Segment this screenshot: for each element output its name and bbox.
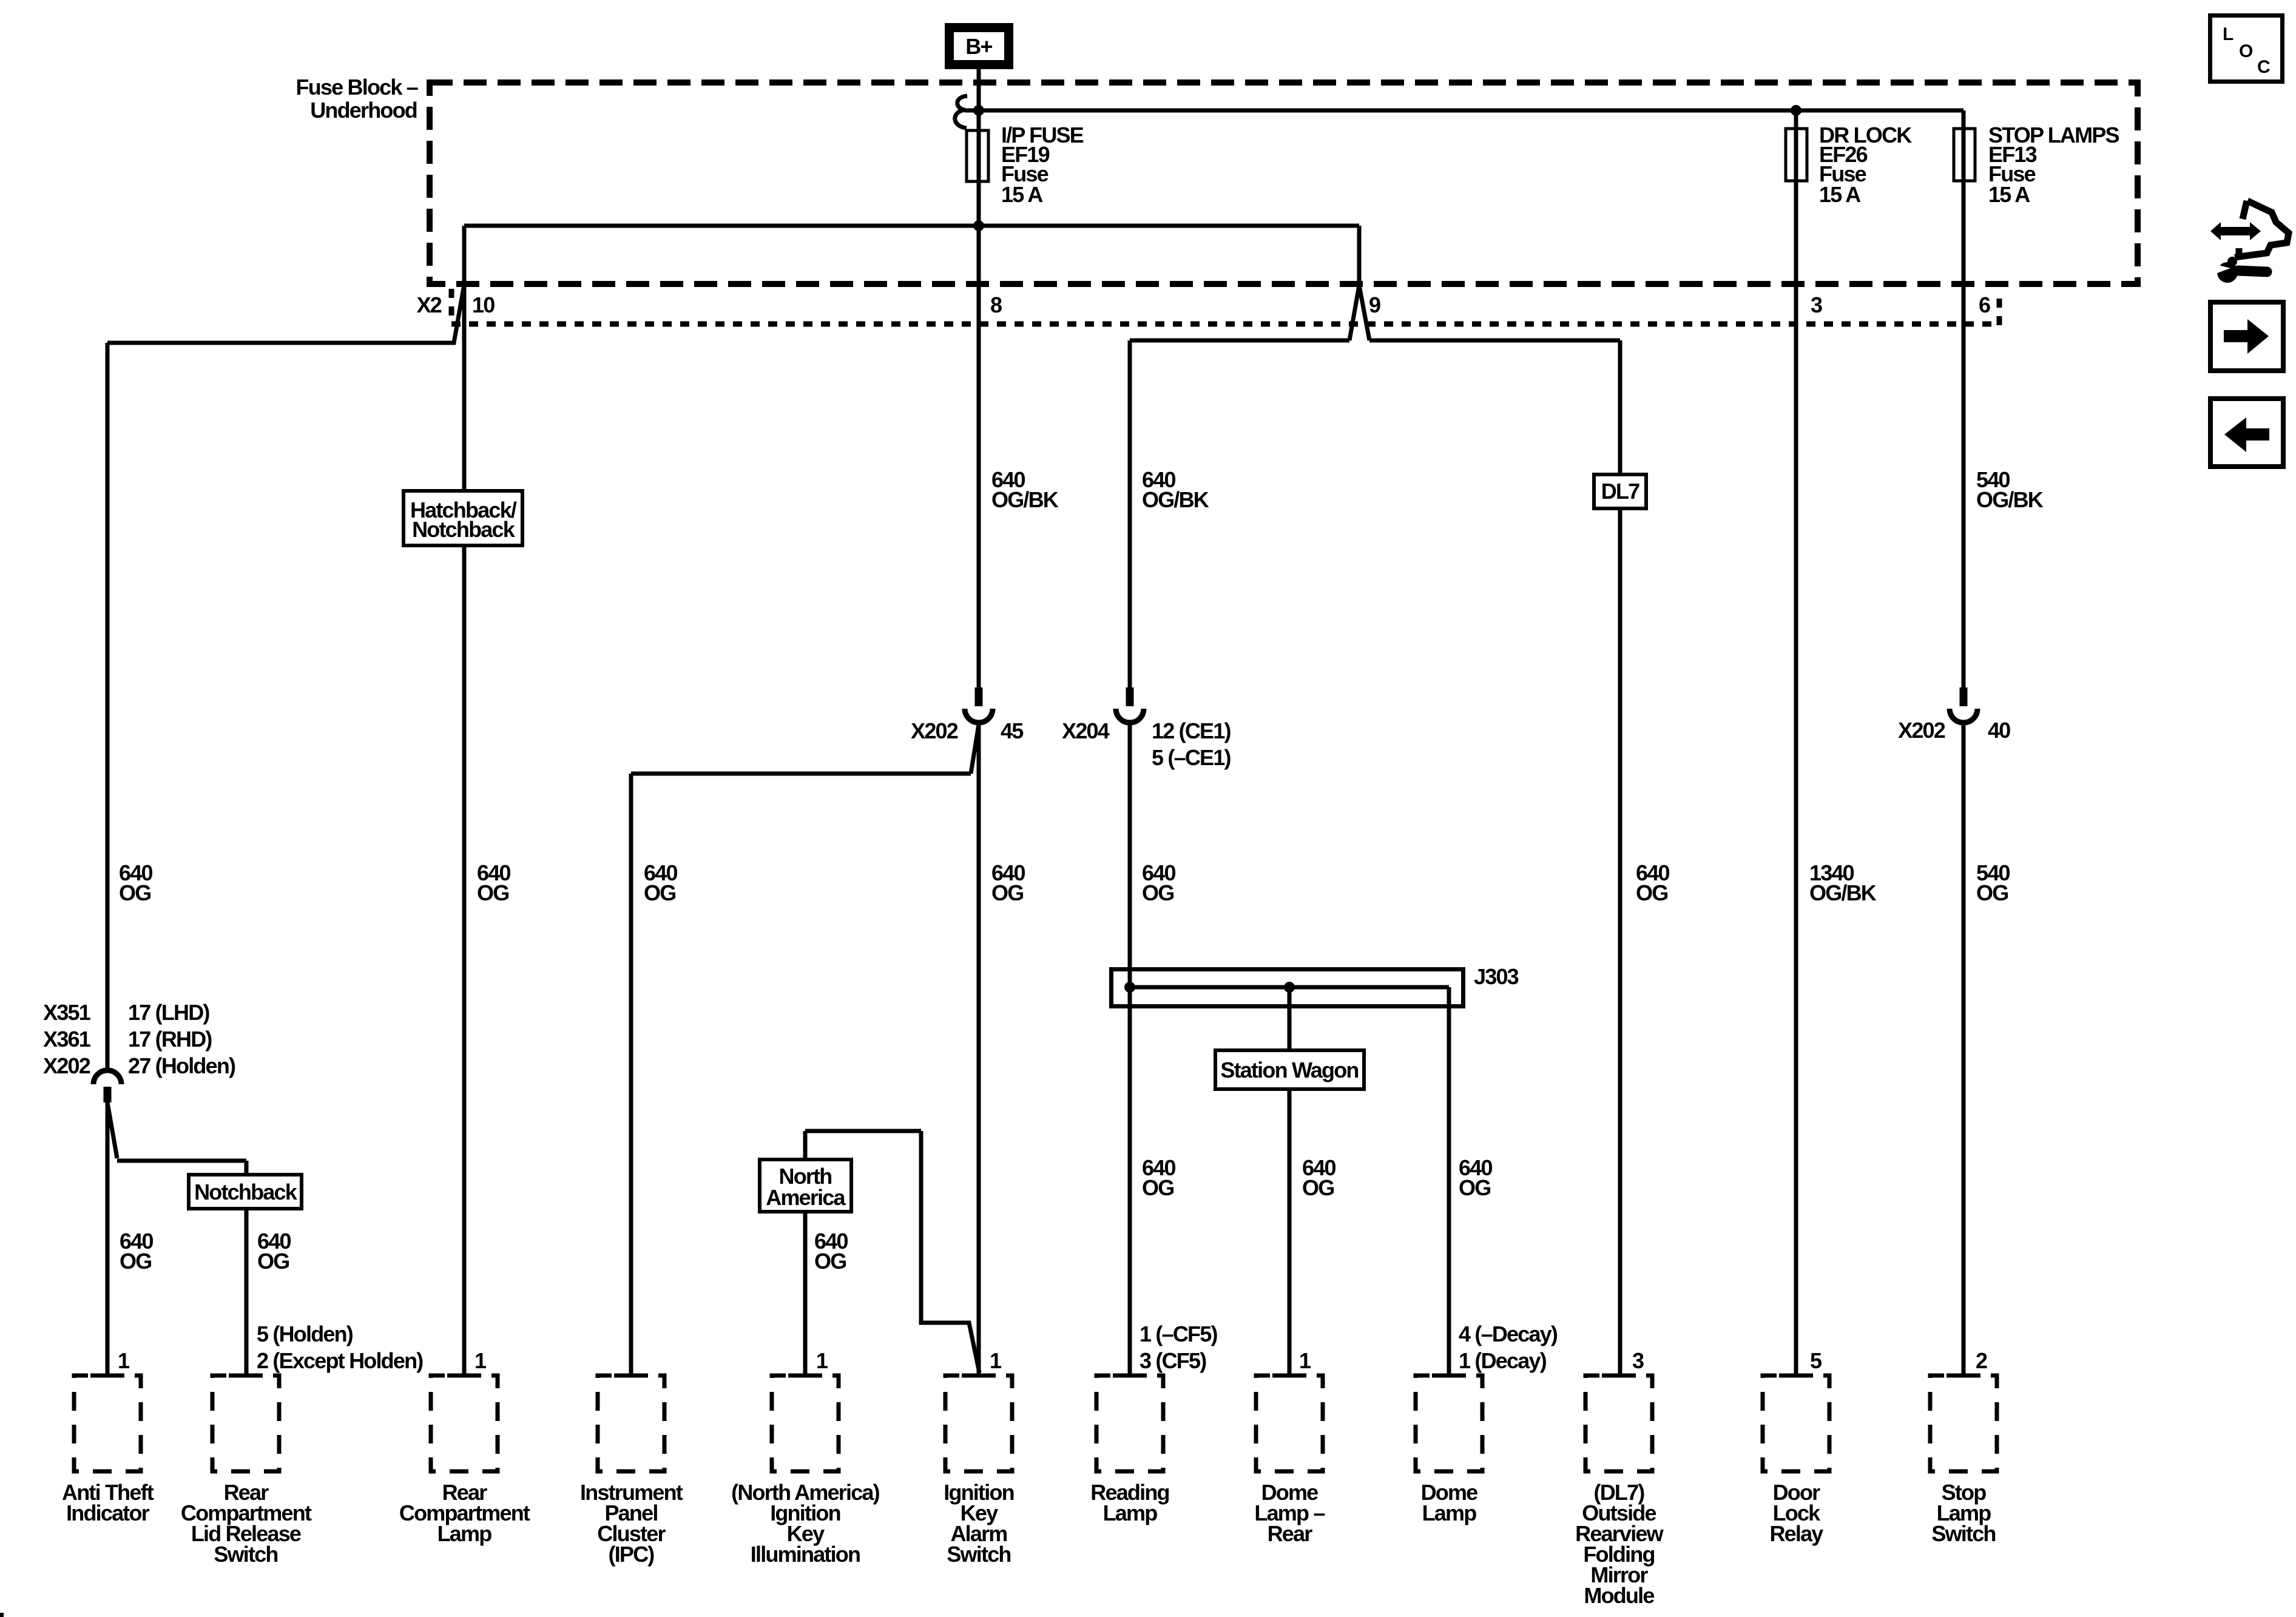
svg-text:OG: OG	[1636, 880, 1667, 905]
svg-text:Notchback: Notchback	[412, 517, 516, 542]
svg-text:OG/BK: OG/BK	[991, 487, 1059, 512]
svg-text:Indicator: Indicator	[66, 1501, 150, 1525]
svg-text:J303: J303	[1474, 964, 1519, 989]
svg-text:2: 2	[1976, 1348, 1987, 1373]
svg-text:OG: OG	[814, 1249, 846, 1274]
svg-text:3: 3	[1811, 292, 1822, 317]
svg-text:OG: OG	[644, 880, 675, 905]
svg-text:12 (CE1): 12 (CE1)	[1152, 718, 1231, 743]
svg-text:1: 1	[118, 1348, 130, 1373]
svg-text:OG: OG	[257, 1249, 289, 1274]
svg-text:1: 1	[990, 1348, 1002, 1373]
svg-text:X202: X202	[43, 1053, 90, 1078]
svg-text:L: L	[2223, 24, 2234, 44]
svg-text:OG/BK: OG/BK	[1976, 487, 2044, 512]
svg-text:45: 45	[1001, 718, 1024, 743]
svg-text:5 (Holden): 5 (Holden)	[257, 1322, 353, 1346]
svg-text:America: America	[766, 1185, 846, 1210]
svg-text:OG: OG	[991, 880, 1023, 905]
svg-text:O: O	[2239, 41, 2253, 61]
svg-text:17 (RHD): 17 (RHD)	[128, 1027, 212, 1052]
svg-text:X2: X2	[417, 292, 442, 317]
svg-text:OG/BK: OG/BK	[1142, 487, 1209, 512]
svg-text:1: 1	[816, 1348, 828, 1373]
svg-text:1: 1	[1299, 1348, 1311, 1373]
svg-text:OG: OG	[1459, 1175, 1490, 1200]
svg-text:X202: X202	[911, 718, 958, 743]
svg-text:Underhood: Underhood	[310, 98, 417, 123]
svg-text:10: 10	[472, 292, 495, 317]
svg-text:3: 3	[1632, 1348, 1644, 1373]
svg-text:4 (–Decay): 4 (–Decay)	[1459, 1322, 1558, 1346]
svg-text:Fuse Block –: Fuse Block –	[296, 75, 418, 100]
svg-text:Switch: Switch	[947, 1542, 1010, 1567]
svg-text:OG: OG	[477, 880, 508, 905]
svg-text:15 A: 15 A	[1819, 182, 1861, 207]
svg-text:X204: X204	[1062, 718, 1110, 743]
svg-text:15 A: 15 A	[1001, 182, 1043, 207]
svg-text:15 A: 15 A	[1988, 182, 2030, 207]
svg-text:5: 5	[1810, 1348, 1822, 1373]
svg-text:1 (–CF5): 1 (–CF5)	[1140, 1322, 1217, 1346]
svg-text:5 (–CE1): 5 (–CE1)	[1152, 745, 1231, 770]
svg-text:Switch: Switch	[1931, 1521, 1995, 1546]
svg-text:Relay: Relay	[1769, 1521, 1823, 1546]
svg-text:Station Wagon: Station Wagon	[1220, 1058, 1358, 1082]
svg-text:Module: Module	[1584, 1583, 1654, 1608]
svg-text:Notchback: Notchback	[194, 1180, 298, 1204]
svg-text:Lamp: Lamp	[1103, 1501, 1158, 1525]
svg-text:X351: X351	[43, 1000, 91, 1025]
svg-text:Rear: Rear	[1268, 1521, 1313, 1546]
svg-text:17 (LHD): 17 (LHD)	[128, 1000, 209, 1025]
svg-text:2 (Except Holden): 2 (Except Holden)	[257, 1348, 423, 1373]
svg-text:Illumination: Illumination	[751, 1542, 860, 1567]
svg-text:OG: OG	[1976, 880, 2008, 905]
svg-text:40: 40	[1988, 718, 2010, 743]
svg-text:6: 6	[1979, 292, 1990, 317]
svg-text:X202: X202	[1898, 718, 1945, 743]
svg-text:1: 1	[474, 1348, 487, 1373]
svg-text:9: 9	[1369, 292, 1380, 317]
svg-text:X361: X361	[43, 1027, 91, 1052]
svg-text:OG: OG	[120, 1249, 151, 1274]
svg-text:DL7: DL7	[1601, 479, 1639, 504]
svg-text:Lamp: Lamp	[437, 1521, 492, 1546]
svg-text:3 (CF5): 3 (CF5)	[1140, 1348, 1206, 1373]
svg-text:Switch: Switch	[214, 1542, 277, 1567]
svg-text:B+: B+	[965, 34, 992, 59]
svg-text:OG: OG	[1142, 1175, 1173, 1200]
svg-text:27 (Holden): 27 (Holden)	[128, 1053, 235, 1078]
svg-text:OG: OG	[119, 880, 150, 905]
svg-text:Lamp: Lamp	[1422, 1501, 1477, 1525]
svg-text:8: 8	[990, 292, 1002, 317]
svg-text:(IPC): (IPC)	[609, 1542, 655, 1567]
svg-text:C: C	[2257, 57, 2270, 77]
svg-text:OG: OG	[1142, 880, 1173, 905]
svg-text:OG: OG	[1302, 1175, 1334, 1200]
svg-text:OG/BK: OG/BK	[1809, 880, 1877, 905]
svg-text:1 (Decay): 1 (Decay)	[1459, 1348, 1547, 1373]
